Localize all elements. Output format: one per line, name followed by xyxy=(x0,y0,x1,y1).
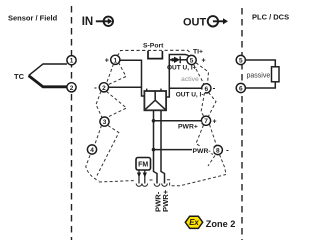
junction dot PWR- xyxy=(152,148,156,152)
svg-text:-: - xyxy=(94,83,97,92)
separator line PLC side xyxy=(241,8,243,240)
wire input left xyxy=(109,60,145,96)
resistor passive load xyxy=(272,67,280,82)
node 2 device terminal xyxy=(94,83,108,92)
svg-text:5: 5 xyxy=(239,58,243,65)
junction dot PWR+ xyxy=(152,119,156,123)
svg-text:5: 5 xyxy=(190,58,194,65)
device outline bottom right xyxy=(208,155,226,175)
label PWR+ xyxy=(178,122,202,131)
node 5 PLC terminal xyxy=(236,55,245,64)
node 6 device terminal xyxy=(202,84,216,93)
FM plug pins xyxy=(139,170,145,184)
svg-text:2: 2 xyxy=(70,85,74,92)
device outline bottom edge xyxy=(99,175,226,186)
cable lens output pair 7-8 xyxy=(196,125,217,155)
amplifier U1 xyxy=(144,91,166,110)
node 4 device terminal xyxy=(87,145,96,154)
svg-text:TI+: TI+ xyxy=(193,48,203,55)
separator line field side xyxy=(71,6,73,240)
svg-text:6: 6 xyxy=(204,86,208,93)
svg-text:OUT: OUT xyxy=(183,17,207,29)
OUT symbol xyxy=(208,16,224,26)
cable lens input pair 1-2 xyxy=(107,63,127,85)
svg-text:OUT U, I+: OUT U, I+ xyxy=(167,65,197,72)
svg-text:Sensor / Field: Sensor / Field xyxy=(8,14,58,23)
node 1 field terminal xyxy=(67,56,76,65)
svg-text:+: + xyxy=(105,58,109,65)
svg-text:passive: passive xyxy=(247,73,271,80)
node 7 device terminal xyxy=(201,116,216,125)
svg-text:Ex: Ex xyxy=(189,218,199,227)
svg-text:active: active xyxy=(181,76,199,83)
svg-text:+: + xyxy=(201,58,205,65)
svg-text:-: - xyxy=(226,146,229,155)
FM box xyxy=(136,158,151,171)
svg-text:-: - xyxy=(213,84,216,93)
svg-text:Zone 2: Zone 2 xyxy=(206,219,236,229)
node 3 device terminal xyxy=(100,117,109,126)
label OUT U, I- xyxy=(175,90,206,99)
svg-text:2: 2 xyxy=(102,85,106,92)
svg-text:+: + xyxy=(212,118,216,125)
svg-text:7: 7 xyxy=(204,118,208,125)
IN symbol xyxy=(96,17,113,26)
svg-text:FM: FM xyxy=(138,162,148,169)
Ex symbol xyxy=(185,216,202,228)
diode D1 xyxy=(174,57,180,63)
node 6 PLC terminal xyxy=(236,83,245,92)
wire power stems xyxy=(154,110,214,183)
node 8 device terminal xyxy=(213,145,229,154)
junction dot TI xyxy=(171,58,174,61)
svg-text:3: 3 xyxy=(103,119,107,126)
svg-text:PWR-: PWR- xyxy=(193,148,211,155)
label PWR- xyxy=(192,146,214,155)
svg-text:PWR+: PWR+ xyxy=(178,123,198,130)
S-Port pins on amplifier xyxy=(147,89,161,92)
cable lens input pair 3-4 xyxy=(95,125,119,175)
svg-text:TC: TC xyxy=(14,72,25,81)
svg-text:1: 1 xyxy=(70,58,74,65)
cable lens input pair 2-3 xyxy=(96,91,127,117)
svg-text:PWR+: PWR+ xyxy=(161,189,170,212)
wire output right xyxy=(166,55,202,98)
svg-text:6: 6 xyxy=(239,86,243,93)
S-Port connector xyxy=(148,51,162,59)
bus sockets xyxy=(136,184,167,187)
cable lens output pair 6-7 xyxy=(201,93,216,117)
svg-text:PLC / DCS: PLC / DCS xyxy=(252,13,289,22)
svg-text:1: 1 xyxy=(113,57,117,64)
svg-text:IN: IN xyxy=(82,16,94,28)
svg-text:8: 8 xyxy=(216,148,220,155)
wire passive loop xyxy=(245,60,275,88)
device outline top dashed with S-Port line xyxy=(117,50,191,56)
node 2 field terminal xyxy=(67,83,76,92)
svg-text:S-Port: S-Port xyxy=(143,43,164,50)
device outline bottom left xyxy=(86,155,99,181)
svg-text:OUT U, I-: OUT U, I- xyxy=(176,91,204,98)
node 1 device terminal xyxy=(105,55,120,64)
cable lens output pair 5-6 xyxy=(194,63,209,84)
node 5 device terminal xyxy=(187,55,206,64)
svg-text:4: 4 xyxy=(90,147,94,154)
